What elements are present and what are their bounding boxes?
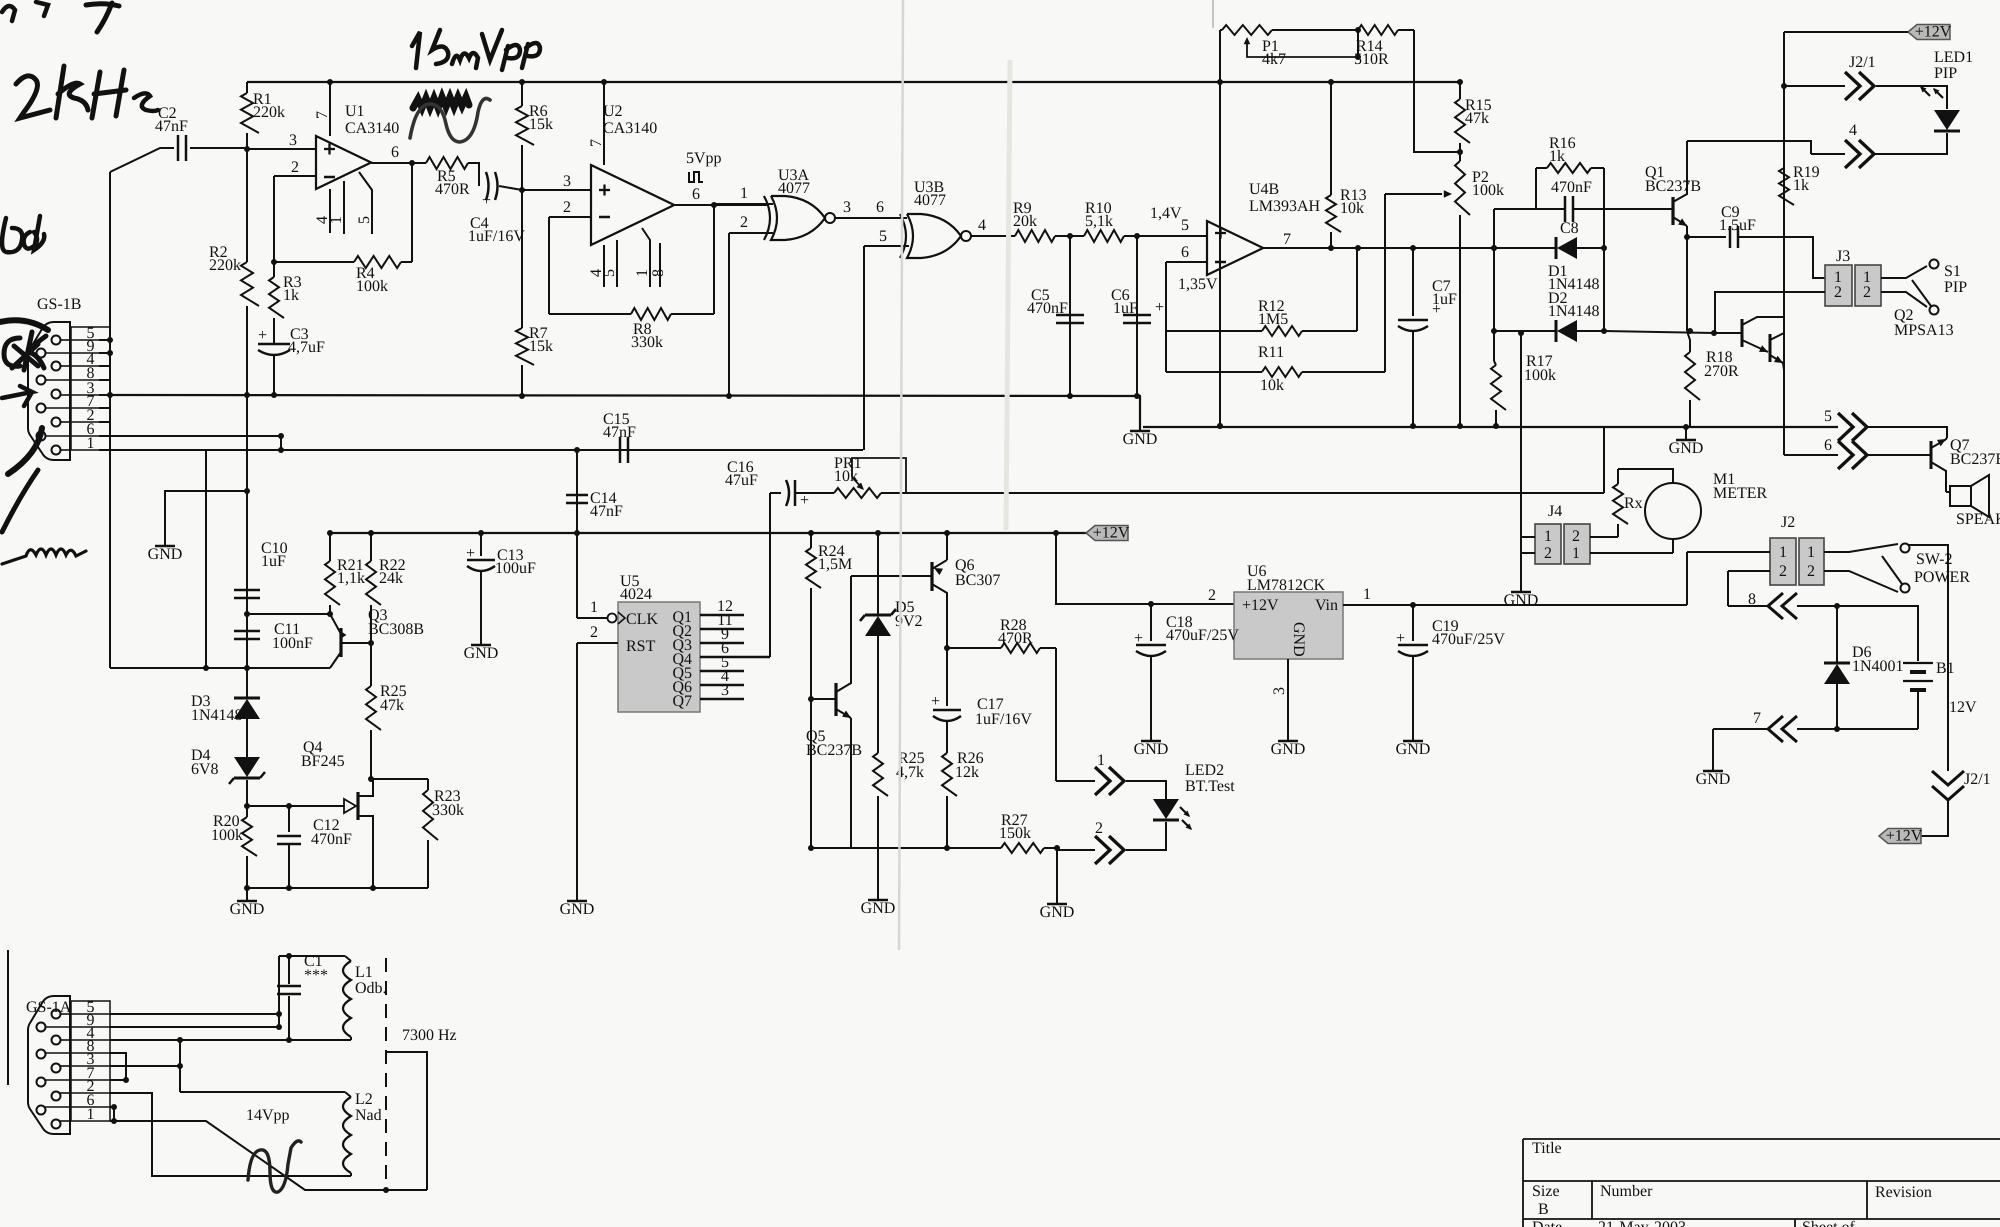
svg-text:100k: 100k: [1472, 182, 1504, 199]
svg-text:1M5: 1M5: [1258, 311, 1288, 328]
ground: [1396, 741, 1431, 758]
svg-text:LM7812CK: LM7812CK: [1247, 577, 1326, 594]
svg-text:10k: 10k: [834, 468, 858, 485]
svg-text:3: 3: [563, 173, 571, 190]
svg-text:100k: 100k: [211, 827, 243, 844]
wire pin2 LED2: [1057, 820, 1103, 850]
resistor R11: [1166, 194, 1385, 394]
svg-text:R11: R11: [1258, 344, 1284, 361]
node: [244, 488, 250, 494]
node: [1711, 330, 1717, 336]
IC U5 4024: [608, 573, 701, 712]
resistor R27: [811, 812, 1057, 853]
wire pin9: [99, 352, 110, 354]
svg-text:GND: GND: [1134, 741, 1169, 758]
node: [944, 845, 950, 851]
handwritten sine: [248, 1141, 301, 1192]
wire pin2: [99, 421, 110, 423]
wire: [1493, 209, 1495, 361]
diode D5 zener: [860, 533, 923, 753]
wire: [1672, 539, 1674, 553]
resistor R13: [1326, 82, 1367, 248]
svg-text:15k: 15k: [529, 338, 553, 355]
svg-text:15k: 15k: [529, 116, 553, 133]
transistor Q7: [1931, 437, 2000, 492]
svg-text:METER: METER: [1713, 485, 1768, 502]
wire: [728, 233, 730, 396]
pin Q5: [700, 654, 744, 671]
wire: [165, 491, 247, 545]
pin 4 U3B: [971, 217, 1015, 236]
transistor Q5: [806, 576, 862, 760]
svg-text:4: 4: [978, 217, 986, 234]
connector pin chevron: [1845, 72, 1874, 100]
node: [1491, 245, 1497, 334]
svg-text:330k: 330k: [631, 334, 663, 351]
wire pin8: [99, 379, 110, 381]
wire: [851, 575, 932, 577]
svg-text:5: 5: [879, 228, 887, 245]
node: [1457, 423, 1463, 429]
wire: [863, 246, 865, 450]
wire: [1797, 606, 1918, 661]
svg-text:4,7uF: 4,7uF: [288, 339, 325, 356]
node: [478, 530, 1059, 536]
node: [1217, 423, 1689, 430]
svg-text:Size: Size: [1532, 1183, 1560, 1200]
wire: [371, 778, 428, 780]
svg-text:SPEAKE: SPEAKE: [1956, 511, 2000, 528]
wire: [1414, 30, 1460, 152]
wire: [1056, 848, 1058, 903]
node: [1457, 149, 1463, 155]
wire: [1797, 728, 1918, 730]
svg-text:6: 6: [876, 199, 884, 216]
node: [409, 160, 415, 166]
label 14Vpp: [246, 1107, 290, 1124]
pin Q2: [700, 612, 744, 629]
svg-text:1N4148: 1N4148: [191, 707, 243, 724]
svg-text:100nF: 100nF: [272, 635, 313, 652]
wire pinA1: [110, 1121, 427, 1190]
handwriting CK: [4, 332, 46, 370]
wire pin7: [99, 407, 110, 409]
svg-text:5,1k: 5,1k: [1085, 213, 1113, 230]
connector pin chevron 7: [1768, 716, 1797, 742]
connector GS-1B: [28, 296, 81, 460]
ground: [1134, 741, 1169, 758]
pin Q7: [700, 682, 744, 699]
svg-text:+: +: [1155, 299, 1164, 316]
node: [1781, 83, 1787, 89]
svg-text:1: 1: [1544, 528, 1552, 545]
svg-text:***: ***: [304, 967, 328, 984]
svg-text:5: 5: [601, 269, 618, 277]
transistor Q1: [1645, 141, 1701, 237]
node: [1601, 328, 1607, 334]
transistor Q4 JFET: [301, 739, 373, 888]
title block: [1523, 1139, 2000, 1227]
resistor R5: [426, 157, 470, 198]
svg-text:U4B: U4B: [1249, 181, 1279, 198]
svg-text:L2: L2: [355, 1091, 373, 1108]
pin 1 CLK: [577, 599, 607, 618]
svg-text:POWER: POWER: [1914, 569, 1970, 586]
svg-text:1: 1: [740, 185, 748, 202]
wire: [1165, 262, 1167, 372]
resistor R20: [211, 806, 257, 900]
battery B1: [1903, 660, 1977, 729]
wire: [109, 172, 111, 395]
svg-text:8: 8: [1748, 591, 1756, 608]
pin 7 U2: [588, 82, 605, 165]
svg-text:BC237B: BC237B: [1950, 451, 2000, 468]
wire: [110, 395, 1140, 430]
svg-text:470R: 470R: [998, 630, 1033, 647]
node: [1148, 601, 1154, 607]
svg-text:12V: 12V: [1949, 699, 1977, 716]
capacitor C2: [110, 105, 247, 172]
svg-text:47nF: 47nF: [603, 424, 636, 441]
node: [1684, 234, 1690, 240]
svg-text:BC237B: BC237B: [1645, 178, 1701, 195]
svg-text:1uF: 1uF: [261, 553, 286, 570]
svg-text:J4: J4: [1548, 503, 1562, 520]
svg-text:470uF/25V: 470uF/25V: [1432, 631, 1505, 648]
handwriting corner marks: [2, 2, 119, 32]
capacitor C7: [1398, 248, 1457, 426]
svg-text:5: 5: [356, 216, 373, 224]
svg-text:470uF/25V: 470uF/25V: [1166, 627, 1239, 644]
node: [711, 202, 717, 208]
svg-text:BC237B: BC237B: [806, 742, 862, 759]
svg-text:SW-2: SW-2: [1916, 551, 1952, 568]
wire: [247, 885, 428, 891]
svg-text:3: 3: [1271, 687, 1288, 695]
handwritten scribble: [413, 97, 469, 108]
svg-text:1,1k: 1,1k: [337, 570, 365, 587]
wire: [1055, 648, 1057, 781]
node: [1067, 233, 1073, 239]
capacitor C4: [468, 163, 525, 245]
gate U3B: [900, 179, 971, 258]
speaker SPEAKER: [1946, 475, 2000, 528]
wire: [110, 667, 330, 669]
svg-text:Revision: Revision: [1875, 1184, 1932, 1201]
connector J2: [1770, 538, 1824, 585]
svg-text:12k: 12k: [955, 764, 979, 781]
svg-text:Odb.: Odb.: [355, 980, 387, 997]
svg-text:+: +: [466, 545, 475, 562]
wire pin1 U6: [1343, 586, 1687, 605]
wire: [1918, 800, 1948, 836]
pin 7 U1: [314, 82, 331, 136]
wire: [1687, 552, 1770, 605]
wire: [205, 450, 207, 668]
pin 6 U2: [673, 186, 769, 205]
wire: [1712, 729, 1714, 770]
label J2: [1781, 514, 1795, 531]
svg-text:1: 1: [328, 216, 345, 224]
wire: [769, 493, 771, 657]
svg-text:270R: 270R: [1704, 363, 1739, 380]
wire: [1601, 168, 1607, 331]
svg-text:J2/1: J2/1: [1964, 771, 1991, 788]
svg-text:2: 2: [1572, 528, 1580, 545]
capacitor C11: [234, 614, 313, 668]
wire: [45, 1014, 71, 1121]
connector J2/1 bottom: [1932, 771, 1991, 800]
wire: [1126, 781, 1166, 805]
ground: [1123, 431, 1158, 448]
wire pinA2: [110, 1093, 351, 1176]
svg-text:+: +: [482, 192, 491, 209]
ground: [464, 645, 499, 662]
meter M1: [1645, 471, 1768, 539]
diode D1: [1494, 220, 1604, 293]
svg-text:L1: L1: [355, 964, 373, 981]
wire: [247, 613, 318, 615]
wire: [810, 699, 812, 848]
ground: [1669, 427, 1704, 457]
node: [203, 665, 209, 671]
svg-text:1,5M: 1,5M: [818, 556, 852, 573]
svg-text:+: +: [1134, 630, 1143, 647]
svg-text:1k: 1k: [283, 287, 299, 304]
svg-text:GND: GND: [1504, 592, 1539, 609]
node: [1493, 423, 1499, 429]
svg-text:GND: GND: [1123, 431, 1158, 448]
capacitor C14: [566, 450, 623, 533]
handwriting 2 kHz: [16, 66, 158, 118]
node: [574, 530, 580, 536]
pins 4 5 1 8 U2: [588, 228, 667, 287]
node: [286, 803, 292, 809]
svg-text:GND: GND: [1040, 904, 1075, 921]
label 5Vpp: [686, 150, 722, 182]
connector GS-1A: [26, 996, 72, 1134]
node: [1134, 393, 1140, 399]
svg-text:4024: 4024: [620, 586, 652, 603]
svg-text:B1: B1: [1936, 660, 1955, 677]
transistor Q6: [932, 533, 1000, 648]
pins 4 1 5 U1: [314, 172, 373, 234]
svg-text:2: 2: [1095, 820, 1103, 837]
pin 5 U3B: [864, 228, 909, 246]
svg-text:U1: U1: [345, 103, 365, 120]
node: [368, 640, 374, 646]
connector pin chevron 4: [1811, 122, 1874, 168]
svg-text:5Vpp: 5Vpp: [686, 150, 722, 167]
svg-text:BF245: BF245: [301, 753, 345, 770]
connector J3: [1825, 265, 1881, 306]
pin Q4: [700, 640, 770, 657]
capacitor C5: [1027, 236, 1084, 396]
wire: [386, 1052, 427, 1190]
resistor R9: [1013, 200, 1084, 242]
svg-text:GND: GND: [560, 901, 595, 918]
wire: [45, 340, 71, 450]
wire: [713, 205, 715, 314]
svg-text:4k7: 4k7: [1262, 51, 1286, 68]
svg-text:1N4148: 1N4148: [1548, 303, 1600, 320]
svg-text:Rx: Rx: [1624, 495, 1643, 512]
capacitor C9: [1687, 204, 1825, 278]
node: [1134, 233, 1140, 239]
pin 7 U4B: [1263, 231, 1494, 248]
svg-text:Number: Number: [1600, 1183, 1653, 1200]
svg-text:3: 3: [721, 682, 729, 699]
wire: [1143, 426, 1838, 428]
label J3: [1836, 248, 1850, 265]
svg-text:+: +: [258, 327, 267, 344]
svg-text:47uF: 47uF: [725, 472, 758, 489]
node: [244, 885, 250, 891]
resistor R24: [806, 533, 852, 699]
pin 2 U1: [274, 159, 316, 176]
resistor R14: [1272, 25, 1414, 68]
wire pin5: [99, 339, 110, 341]
power flag +12V: [1879, 828, 1923, 845]
svg-text:+: +: [800, 492, 809, 509]
svg-text:47nF: 47nF: [155, 118, 188, 135]
svg-text:5: 5: [1824, 408, 1832, 425]
svg-text:CLK: CLK: [626, 611, 658, 628]
resistor R15: [1455, 82, 1492, 161]
svg-text:10k: 10k: [1340, 200, 1364, 217]
wire pinA5: [110, 1013, 279, 1015]
svg-text:100uF: 100uF: [495, 560, 536, 577]
node: [107, 337, 113, 398]
svg-text:GS-1B: GS-1B: [37, 296, 81, 313]
svg-text:1,4V: 1,4V: [1150, 205, 1182, 222]
transistor Q2 darlington: [1714, 307, 1954, 370]
capacitor C19: [1396, 605, 1505, 740]
node: [1355, 27, 1361, 60]
svg-text:Title: Title: [1532, 1140, 1562, 1157]
node: [244, 146, 250, 152]
connector pin chevron 5: [1824, 408, 1867, 441]
power flag +12V: [1784, 24, 1952, 41]
resistor R1: [241, 82, 285, 149]
connector pin chevron 6: [1838, 441, 1867, 469]
op-amp U1: [316, 103, 399, 189]
svg-text:6: 6: [1181, 244, 1189, 261]
wire: [1126, 822, 1166, 850]
wire pinA8: [110, 1053, 126, 1080]
handwriting strokes: [0, 320, 48, 532]
node: [244, 803, 250, 809]
wire pinA9: [110, 1026, 279, 1028]
svg-text:GND: GND: [1669, 440, 1704, 457]
capacitor C1: [277, 953, 328, 1040]
inductor L1: [343, 956, 387, 1040]
resistor R25: [873, 750, 925, 899]
connector pin chevron 8: [1768, 593, 1797, 619]
LED LED1: [1920, 49, 1973, 131]
wire: [247, 81, 1460, 83]
pin 2 U2: [549, 199, 591, 217]
node: [1834, 603, 1840, 609]
transistor Q3: [330, 607, 424, 668]
connector pin chevron: [1095, 836, 1124, 864]
diode D2: [1494, 290, 1604, 342]
wire: [576, 643, 578, 900]
pin 3 U2: [522, 173, 591, 190]
svg-text:1.5uF: 1.5uF: [1719, 217, 1756, 234]
ground: [1040, 904, 1075, 921]
power flag +12V: [1086, 525, 1130, 542]
svg-text:2: 2: [1544, 545, 1552, 562]
wire: [1219, 30, 1221, 426]
svg-text:3: 3: [843, 199, 851, 216]
wire: [548, 217, 550, 314]
svg-text:GND: GND: [148, 546, 183, 563]
svg-text:1: 1: [1779, 544, 1787, 561]
node: [278, 433, 284, 453]
node: [286, 953, 292, 959]
connector J4: [1535, 503, 1590, 564]
wire Q5 emitter: [850, 760, 852, 848]
svg-text:1N4001: 1N4001: [1852, 658, 1904, 675]
svg-text:1: 1: [590, 599, 598, 616]
resistor R2: [209, 149, 259, 395]
svg-text:J3: J3: [1836, 248, 1850, 265]
svg-text:CA3140: CA3140: [345, 120, 399, 137]
resistor R25b: [366, 643, 407, 779]
svg-text:2: 2: [590, 624, 598, 641]
wire: [2, 549, 86, 564]
wire pin1 LED2: [1056, 752, 1105, 781]
svg-text:1k: 1k: [1793, 177, 1809, 194]
ground: [1504, 592, 1539, 609]
wire: [1056, 533, 1234, 604]
svg-text:1uF: 1uF: [1113, 300, 1138, 317]
wire: [279, 955, 345, 957]
resistor R28: [947, 617, 1056, 653]
wire: [411, 163, 413, 262]
wire: [1728, 571, 1770, 606]
svg-text:47k: 47k: [1465, 110, 1489, 127]
pin 2 RST: [577, 624, 618, 643]
wire pinA4: [110, 1039, 351, 1041]
svg-text:J2/1: J2/1: [1849, 54, 1876, 71]
ground: [230, 901, 265, 918]
svg-text:8: 8: [650, 269, 667, 277]
node: [1328, 245, 1334, 251]
svg-text:47nF: 47nF: [590, 503, 623, 520]
capacitor C6: [1111, 236, 1164, 396]
inductor L2: [343, 1091, 382, 1176]
svg-text:1: 1: [87, 435, 95, 452]
svg-text:6: 6: [391, 144, 399, 161]
wire: [278, 956, 280, 1027]
node: [383, 1187, 389, 1193]
capacitor C17: [931, 645, 1032, 753]
wire: [576, 533, 578, 618]
wire: [1867, 454, 1930, 456]
resistor R21: [325, 533, 365, 614]
svg-text:C8: C8: [1560, 220, 1579, 237]
capacitor C12: [277, 806, 352, 888]
svg-text:470nF: 470nF: [1027, 300, 1068, 317]
label 1,35V: [1178, 276, 1218, 293]
svg-text:GND: GND: [861, 900, 896, 917]
svg-text:1: 1: [1807, 544, 1815, 561]
svg-text:1: 1: [87, 1106, 95, 1123]
wire: [247, 805, 344, 807]
svg-text:100k: 100k: [1524, 367, 1556, 384]
